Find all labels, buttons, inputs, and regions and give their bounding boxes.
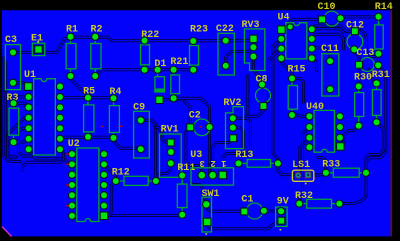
trimmer RV2 bbox=[223, 98, 243, 149]
wire U1 pin left bbox=[6, 97, 29, 101]
capacitor C1 bbox=[240, 195, 268, 220]
svg-text:SW1: SW1 bbox=[202, 189, 220, 200]
wire U1-left diagonal bbox=[8, 118, 29, 162]
switch SW1 bbox=[202, 189, 220, 235]
wire C12-C13-R30 bbox=[354, 49, 359, 86]
trimmer RV1 bbox=[160, 125, 182, 178]
wire R30-U40 bbox=[340, 126, 358, 147]
capacitor C22 bbox=[216, 24, 234, 75]
wire RV1-R12 bbox=[156, 163, 171, 181]
capacitor C10 bbox=[318, 2, 345, 26]
wire U1-R5-R4 bbox=[61, 95, 114, 99]
op-amp U4 bbox=[277, 13, 316, 63]
trimmer RV3 bbox=[242, 20, 265, 71]
wire C10-R14 bbox=[340, 17, 378, 19]
speaker LS1 bbox=[292, 160, 314, 184]
capacitor C12 bbox=[346, 21, 364, 54]
wire U1-U2 bundle 1 bbox=[29, 149, 72, 164]
transistor U3 bbox=[190, 150, 233, 185]
wire R13-LS1 bbox=[278, 163, 294, 174]
wire D1-C2 bbox=[159, 100, 190, 128]
wire left edge bus A bbox=[3, 58, 18, 162]
wire U4-C10 bbox=[281, 19, 320, 29]
wire U2-R11 long bbox=[104, 213, 182, 217]
wire C1-9V bbox=[264, 209, 281, 212]
wire RV3-C8 bbox=[253, 57, 262, 85]
svg-text:R31: R31 bbox=[372, 70, 390, 81]
resistor R23 bbox=[189, 25, 208, 74]
wire RV2-U3 bbox=[213, 138, 234, 175]
resistor R32 bbox=[295, 191, 343, 208]
ratsnest marks bbox=[66, 126, 202, 207]
svg-text:R15: R15 bbox=[288, 65, 306, 76]
wire U1-U2 bundle 2 bbox=[23, 149, 64, 170]
wire R12-U2 bottom bbox=[109, 181, 116, 216]
svg-text:9V: 9V bbox=[277, 197, 289, 208]
wire R21-C2 bbox=[174, 98, 210, 127]
wire C3-E1 bbox=[13, 51, 35, 54]
resistor R21 bbox=[169, 57, 188, 102]
wire C22 texture bus bbox=[246, 76, 249, 114]
wire R31 stub bbox=[369, 69, 377, 83]
wire U4 stub 4 bbox=[312, 57, 317, 70]
resistor R33 bbox=[322, 159, 370, 177]
resistor R22 bbox=[140, 30, 159, 74]
wire R3-U1 bbox=[13, 103, 28, 107]
capacitor C8 bbox=[256, 75, 271, 111]
capacitor C2 bbox=[186, 110, 214, 135]
wire SW1-C1 bbox=[206, 204, 244, 211]
wire R33 stub bbox=[318, 158, 326, 174]
resistor R2 bbox=[91, 25, 103, 80]
svg-text:R30: R30 bbox=[354, 73, 372, 84]
wire C9-R12 bbox=[141, 120, 156, 181]
op-amp U2 bbox=[68, 139, 109, 222]
wire LS1-R33 bbox=[311, 173, 326, 175]
svg-text:R14: R14 bbox=[375, 2, 393, 13]
wire U2-R12 bbox=[104, 164, 116, 181]
wire RV2-U3 pin3 bbox=[223, 118, 251, 175]
wire C12 right arc bbox=[361, 30, 375, 57]
resistor R15 bbox=[288, 65, 306, 120]
wire RV1 square feed bbox=[156, 128, 171, 143]
wire C3-U1 bbox=[13, 83, 28, 87]
wire R1-R5 bbox=[71, 76, 89, 98]
wire RV3-C22 bbox=[226, 47, 254, 66]
wire R14-C13 bbox=[377, 54, 380, 66]
wire U40-R15 bbox=[292, 115, 309, 116]
wire R4-C9 bbox=[114, 138, 141, 149]
resistor R11 bbox=[177, 163, 195, 219]
wire U4-C11 bbox=[312, 48, 330, 61]
capacitor C11 bbox=[321, 44, 339, 96]
svg-text:U4: U4 bbox=[278, 13, 290, 24]
wire R3-U1 pin bbox=[14, 139, 29, 142]
resistor R5 bbox=[83, 87, 95, 142]
wire R31-R33-R32 bbox=[339, 122, 384, 203]
svg-text:R23: R23 bbox=[190, 25, 208, 36]
wire U4-C12 bbox=[312, 26, 351, 31]
wire C2-U3 bbox=[208, 127, 211, 175]
wire SW1-9V bbox=[207, 221, 281, 229]
svg-text:1 2 3: 1 2 3 bbox=[199, 158, 226, 168]
wire U4-C8 bbox=[263, 48, 281, 106]
capacitor C13 bbox=[355, 48, 382, 72]
wire left edge bus B bbox=[5, 62, 16, 157]
svg-text:U40: U40 bbox=[306, 102, 324, 113]
wire U1-R5-R4 low bbox=[60, 137, 114, 139]
wire R15 stub bbox=[292, 79, 304, 103]
wire RV2 stub bbox=[233, 128, 244, 148]
wire E1-R1-R2-R22-R23-C22-RV3 bbox=[44, 37, 254, 52]
jumper E1 bbox=[31, 33, 45, 55]
board edge chamfer line (magenta) bbox=[2, 227, 12, 237]
capacitor C3 bbox=[5, 35, 21, 89]
op-amp U40 bbox=[305, 102, 344, 152]
wire C2-U3 pin feed bbox=[186, 127, 202, 175]
wire U40-LS1 bbox=[298, 138, 309, 175]
resistor R14 bbox=[374, 2, 392, 58]
wire C8 stub bbox=[246, 106, 263, 116]
wire U4-R15 bbox=[281, 57, 292, 78]
resistor R1 bbox=[66, 25, 78, 80]
resistor R30 bbox=[354, 73, 372, 130]
board edge line right (dark red) bbox=[390, 10, 392, 236]
resistor R13 bbox=[234, 150, 282, 168]
wire R2-R22-D1-R21-R23 bbox=[95, 70, 193, 76]
resistor R4 bbox=[109, 87, 121, 142]
wire U1 pin left low bbox=[19, 128, 34, 156]
wire U4-R13 bbox=[273, 39, 281, 164]
op-amp U1 bbox=[24, 70, 64, 155]
resistor R12 bbox=[112, 168, 160, 186]
svg-text:LS1: LS1 bbox=[292, 160, 310, 171]
wire U40-R32 bbox=[299, 127, 309, 204]
wire C13-R33 via right edge bbox=[366, 65, 386, 172]
diode D1 bbox=[153, 59, 166, 104]
battery connector 9V bbox=[276, 197, 289, 231]
wire SW1 up bbox=[193, 185, 206, 205]
resistor R3 bbox=[7, 93, 19, 146]
capacitor C9 bbox=[133, 102, 149, 158]
resistor R31 bbox=[372, 70, 390, 126]
wire U4 bundle mid bbox=[314, 29, 345, 37]
wire U4 bundle 2 bbox=[312, 34, 344, 49]
